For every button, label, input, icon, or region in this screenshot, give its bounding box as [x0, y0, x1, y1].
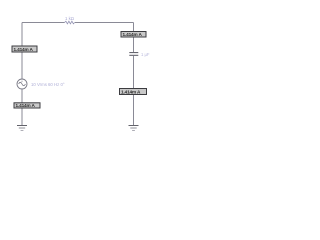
resistor R1 — [65, 21, 75, 24]
wire top-right horizontal segment — [75, 22, 134, 24]
probe indicator box (right lower, current) — [120, 89, 147, 95]
wire right vertical (capacitor to ground) — [133, 56, 135, 125]
svg-text:+: + — [21, 79, 23, 83]
svg-text:1.414m A: 1.414m A — [123, 32, 143, 37]
ground (left) — [17, 126, 27, 131]
svg-text:1.414m A: 1.414m A — [14, 47, 34, 52]
wire left vertical (top to source) — [21, 23, 23, 80]
probe indicator box (left lower, current) — [14, 103, 40, 108]
svg-text:1 kΩ: 1 kΩ — [65, 16, 75, 21]
capacitor C1 — [129, 53, 138, 56]
probe indicator box (right upper, current) — [121, 32, 146, 38]
svg-text:1.414m A: 1.414m A — [16, 103, 36, 108]
svg-text:10 Vrms 60 Hz 0°: 10 Vrms 60 Hz 0° — [31, 82, 65, 87]
wire right vertical (top to capacitor) — [133, 23, 135, 53]
wire top-left horizontal segment — [22, 22, 65, 24]
ground (right) — [129, 126, 139, 131]
AC source V1 — [17, 79, 27, 89]
probe indicator box (left upper, current) — [12, 46, 37, 52]
svg-text:1.414m A: 1.414m A — [121, 89, 141, 94]
svg-text:1 µF: 1 µF — [141, 52, 150, 57]
wire left vertical (source to ground) — [21, 89, 23, 125]
